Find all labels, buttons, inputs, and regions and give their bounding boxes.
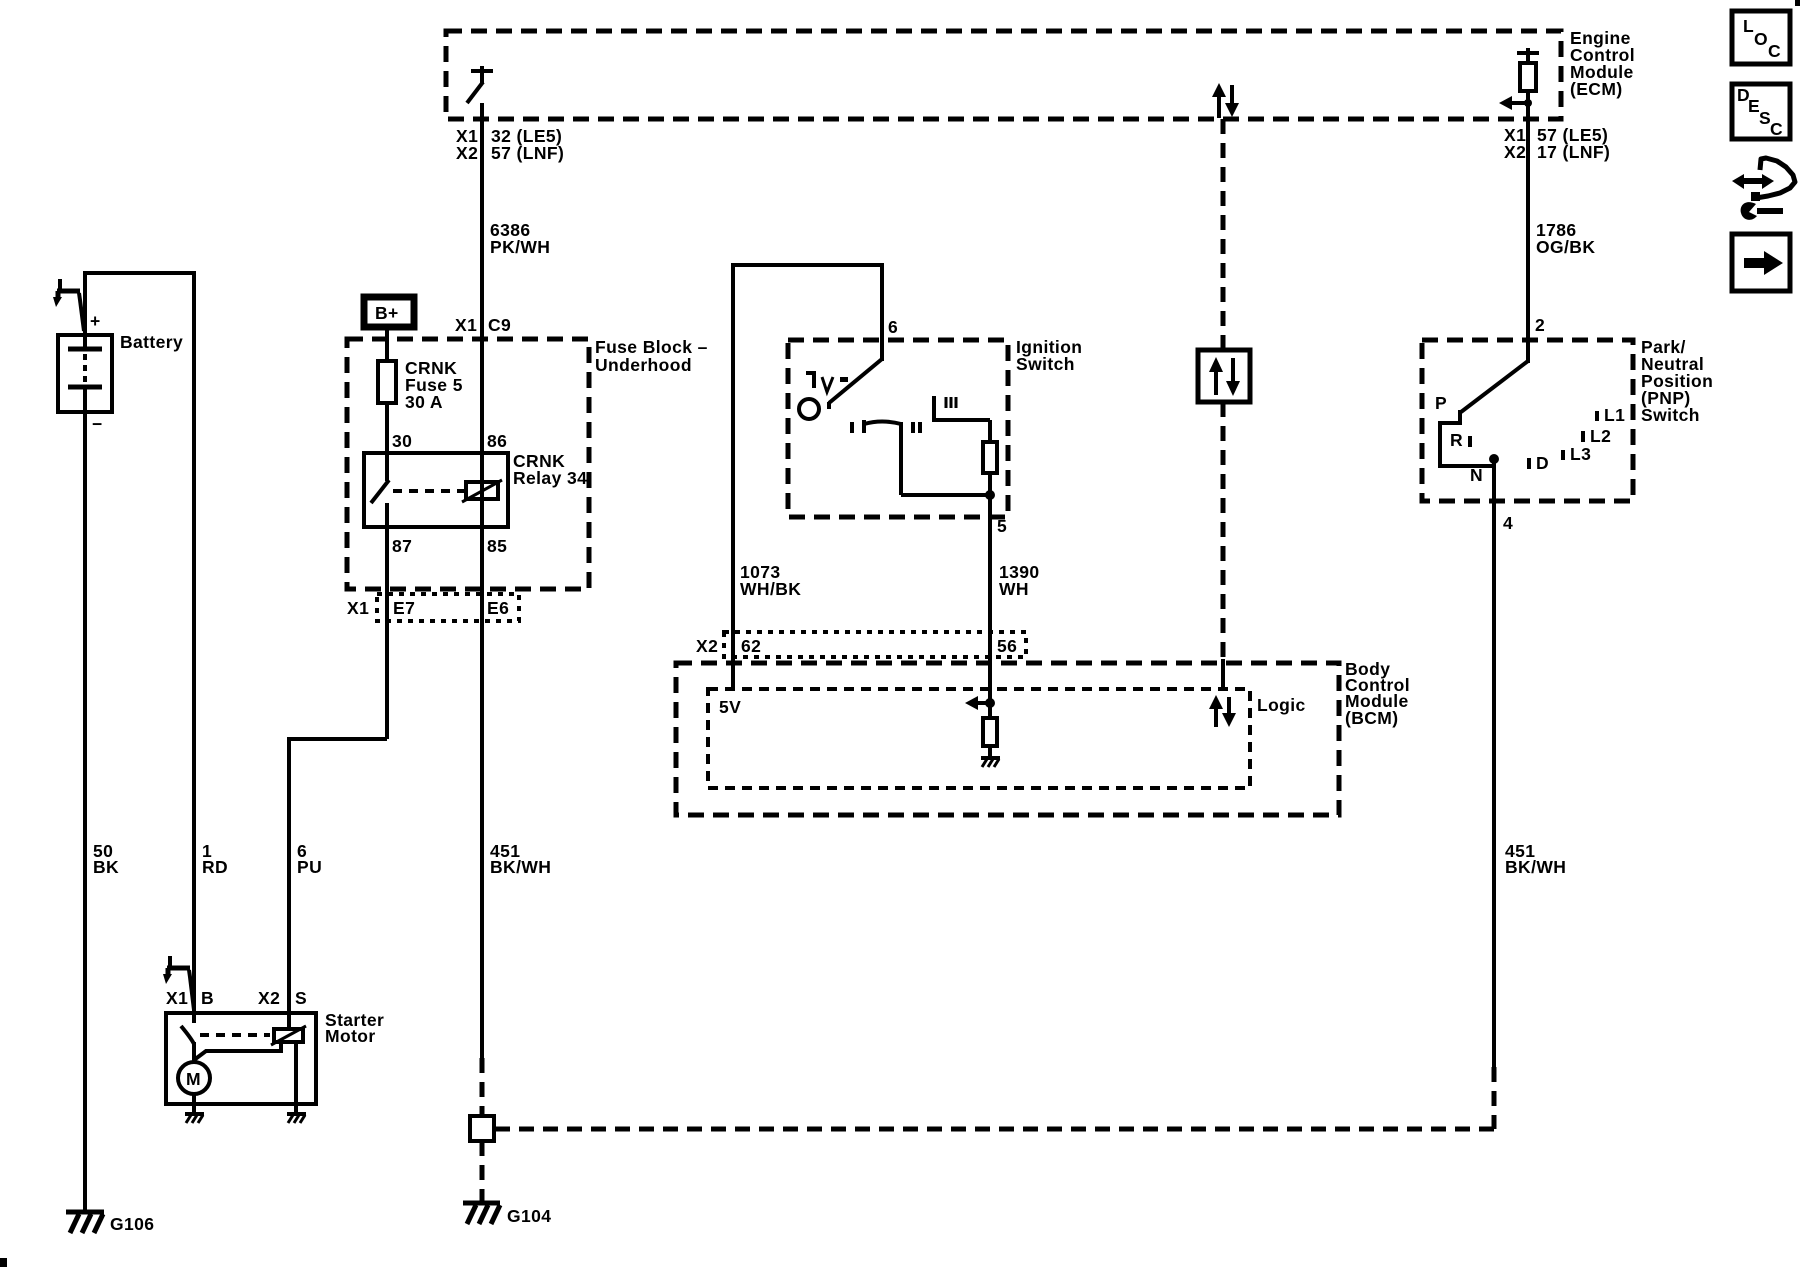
starter clip symbol xyxy=(163,956,194,1010)
G104 splice box xyxy=(470,1116,494,1141)
Body Control Module dashed box xyxy=(676,663,1339,815)
PNP label xyxy=(1641,337,1713,425)
ground at solenoid xyxy=(287,1114,306,1123)
wire fuse to relay pin 30 xyxy=(385,403,389,453)
serial data dashed wire ECM to BCM xyxy=(1221,119,1226,689)
battery xyxy=(58,311,112,434)
svg-text:BK/WH: BK/WH xyxy=(490,857,551,877)
svg-text:5: 5 xyxy=(997,516,1007,536)
wire relay 87 to starter S (6 PU) xyxy=(289,527,387,1029)
svg-text:L3: L3 xyxy=(1570,444,1591,464)
Park/Neutral Position Switch dashed box xyxy=(1422,340,1633,501)
node X1 C9 xyxy=(455,315,511,335)
ECM internal resistor (crank request) xyxy=(1517,48,1539,91)
motor ground wire xyxy=(192,1094,196,1114)
wire label 1786 OG/BK xyxy=(1536,220,1595,257)
ECM pin X1 57 (LE5) label xyxy=(1504,125,1608,145)
corner artifact top right xyxy=(1795,0,1800,6)
starter motor box xyxy=(166,1013,316,1104)
svg-text:X1: X1 xyxy=(455,315,477,335)
svg-text:M: M xyxy=(186,1069,201,1089)
ignition switch label xyxy=(1016,337,1082,374)
svg-text:Relay 34: Relay 34 xyxy=(513,468,587,488)
svg-text:4: 4 xyxy=(1503,513,1513,533)
svg-text:Fuse Block –: Fuse Block – xyxy=(595,337,708,357)
svg-text:(ECM): (ECM) xyxy=(1570,79,1623,99)
svg-text:D: D xyxy=(1536,453,1549,473)
battery clip symbol xyxy=(53,279,84,331)
two-way arrows / wrench icon xyxy=(1732,158,1795,220)
svg-text:RD: RD xyxy=(202,857,228,877)
dashed wire G104 splice to ground xyxy=(480,1141,485,1202)
ECM pin X2 57 (LNF) label xyxy=(456,143,564,163)
svg-text:R: R xyxy=(1450,430,1463,450)
wire battery negative to G106 (50 BK) xyxy=(83,412,87,1211)
relay coil xyxy=(462,480,502,502)
svg-text:S: S xyxy=(295,988,307,1008)
svg-text:WH: WH xyxy=(999,579,1029,599)
BCM pulldown resistor xyxy=(983,703,997,758)
svg-text:6: 6 xyxy=(888,317,898,337)
svg-text:B+: B+ xyxy=(375,303,399,323)
wire battery positive to starter (1 RD) xyxy=(83,271,194,1013)
corner artifact bottom left xyxy=(0,1258,7,1267)
ECM driver switch symbol xyxy=(467,66,493,103)
svg-text:X2: X2 xyxy=(696,636,718,656)
ground G106 xyxy=(66,1212,104,1233)
svg-text:30: 30 xyxy=(392,431,412,451)
starter terminal labels X1 B X2 S xyxy=(166,988,307,1008)
svg-text:OG/BK: OG/BK xyxy=(1536,237,1595,257)
BCM logic up/down arrows xyxy=(1209,695,1236,727)
BCM internal ground xyxy=(981,758,1000,767)
svg-text:N: N xyxy=(1470,465,1483,485)
svg-text:G104: G104 xyxy=(507,1206,551,1226)
wire label 1390 WH xyxy=(999,562,1040,599)
dashed wire 451 to G104 splice xyxy=(494,1067,1494,1129)
relay label xyxy=(513,451,587,488)
svg-text:62: 62 xyxy=(741,636,761,656)
ECM pin X1 32 (LE5) label xyxy=(456,126,562,146)
svg-text:Switch: Switch xyxy=(1016,354,1075,374)
svg-text:O: O xyxy=(1754,29,1768,49)
svg-text:E6: E6 xyxy=(487,598,509,618)
relay switch arm xyxy=(371,453,389,527)
starter solenoid coil xyxy=(271,1026,306,1045)
svg-text:G106: G106 xyxy=(110,1214,154,1234)
svg-text:X2: X2 xyxy=(456,143,478,163)
svg-text:Motor: Motor xyxy=(325,1026,376,1046)
svg-text:X1: X1 xyxy=(347,598,369,618)
svg-text:85: 85 xyxy=(487,536,507,556)
svg-text:C9: C9 xyxy=(488,315,511,335)
wire B+ to fuse xyxy=(385,330,389,361)
B+ power feed symbol xyxy=(364,297,414,327)
ECM pin X2 17 (LNF) label xyxy=(1504,142,1610,162)
starter solenoid dashed link xyxy=(200,1033,270,1037)
relay actuation dashed link xyxy=(393,489,464,493)
ignition contact III xyxy=(934,396,990,420)
svg-text:WH/BK: WH/BK xyxy=(740,579,801,599)
ignition internal resistor xyxy=(983,420,997,703)
svg-text:E7: E7 xyxy=(393,598,415,618)
BCM label xyxy=(1345,659,1410,728)
svg-text:5V: 5V xyxy=(719,697,741,717)
svg-text:C: C xyxy=(1768,41,1781,61)
svg-text:Battery: Battery xyxy=(120,332,183,352)
svg-text:X2: X2 xyxy=(258,988,280,1008)
svg-text:30 A: 30 A xyxy=(405,392,443,412)
svg-text:L: L xyxy=(1743,16,1754,36)
PNP contact N junction xyxy=(1489,454,1499,466)
Engine Control Module (ECM) dashed box xyxy=(446,31,1561,119)
DESC icon box xyxy=(1732,84,1790,139)
svg-text:Logic: Logic xyxy=(1257,695,1306,715)
svg-text:B: B xyxy=(201,988,214,1008)
svg-text:BK: BK xyxy=(93,857,119,877)
svg-text:X2: X2 xyxy=(1504,142,1526,162)
svg-text:BK/WH: BK/WH xyxy=(1505,857,1566,877)
ignition II label xyxy=(913,422,920,433)
Logic dashed box xyxy=(708,689,1250,788)
LOC icon box xyxy=(1732,11,1790,64)
wire label 451 BK/WH right xyxy=(1505,841,1566,877)
Fuse Block label xyxy=(595,337,708,375)
CRNK Relay 34 box xyxy=(364,453,508,527)
PNP contact labels xyxy=(1435,393,1625,485)
svg-text:57 (LNF): 57 (LNF) xyxy=(491,143,564,163)
svg-text:86: 86 xyxy=(487,431,507,451)
wire label 6386 PK/WH xyxy=(490,220,550,257)
wire label 6 PU xyxy=(297,841,322,877)
svg-text:L2: L2 xyxy=(1590,426,1611,446)
dashed wire to G104 splice from fuse block xyxy=(480,1058,485,1116)
ground at motor xyxy=(185,1114,204,1123)
BCM connector X2 62 56 dotted box xyxy=(696,632,1026,657)
BCM input junction with left arrow xyxy=(965,696,995,710)
svg-text:Switch: Switch xyxy=(1641,405,1700,425)
starter label xyxy=(325,1010,384,1046)
Ignition Switch dashed box xyxy=(788,340,1008,517)
Fuse Block Underhood dashed box xyxy=(347,339,589,589)
svg-text:17 (LNF): 17 (LNF) xyxy=(1537,142,1610,162)
svg-text:87: 87 xyxy=(392,536,412,556)
svg-text:X1: X1 xyxy=(166,988,188,1008)
svg-text:PU: PU xyxy=(297,857,322,877)
svg-text:2: 2 xyxy=(1535,315,1545,335)
PNP P-N contact path xyxy=(1440,410,1496,466)
PNP switch arm from pin 2 xyxy=(1461,361,1528,412)
wire BCM 62 to ignition pin 6 (1073 WH/BK) xyxy=(731,263,882,689)
wire label 1 RD xyxy=(202,841,228,877)
motor M xyxy=(178,1062,210,1094)
starter solenoid return wire xyxy=(294,1042,298,1114)
wire label 50 BK xyxy=(93,841,119,877)
wire 1786 OG/BK from ECM to PNP switch xyxy=(1526,91,1530,363)
ignition junction node xyxy=(985,490,995,500)
svg-text:C: C xyxy=(1770,119,1783,139)
wire 6386 PK/WH from ECM to fuse block xyxy=(480,103,484,1058)
svg-text:56: 56 xyxy=(997,636,1017,656)
starter solenoid contact arm xyxy=(181,1013,194,1063)
ignition contact II wire xyxy=(901,422,990,495)
serial data up/down arrows at ECM xyxy=(1212,83,1239,118)
wire 451 BK/WH from PNP N to G104 xyxy=(1492,466,1496,1067)
ECM label xyxy=(1570,28,1635,99)
svg-text:−: − xyxy=(92,414,103,434)
svg-text:P: P xyxy=(1435,393,1447,413)
fuse label xyxy=(405,358,463,412)
svg-text:L1: L1 xyxy=(1604,405,1625,425)
svg-text:(BCM): (BCM) xyxy=(1345,708,1399,728)
connector X1 E7 E6 dotted box xyxy=(347,594,519,621)
wire label 451 BK/WH left xyxy=(490,841,551,877)
svg-text:Underhood: Underhood xyxy=(595,355,692,375)
ground G104 xyxy=(463,1203,500,1224)
wire label 1073 WH/BK xyxy=(740,562,801,599)
ignition key symbol IV xyxy=(806,373,848,392)
svg-text:+: + xyxy=(90,311,101,331)
ignition contact I xyxy=(852,420,901,433)
ignition key cylinder circle xyxy=(799,399,819,419)
ECM internal left-pointing arrow xyxy=(1499,96,1532,110)
svg-text:PK/WH: PK/WH xyxy=(490,237,550,257)
CRNK Fuse 5 30 A xyxy=(378,361,396,403)
starter internal wire coil to motor feed xyxy=(194,1042,281,1060)
ignition switch arm xyxy=(829,359,882,409)
serial data two-way arrow box node xyxy=(1198,350,1250,402)
right arrow icon box xyxy=(1732,234,1790,291)
